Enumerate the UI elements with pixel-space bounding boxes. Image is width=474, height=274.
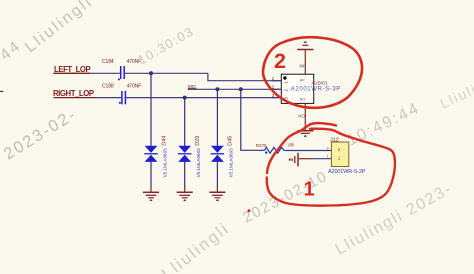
red dot [248,209,251,212]
wire box to lower ground [304,103,306,130]
port RIGHT_LOP [53,89,94,98]
connector J12 [327,137,366,175]
svg-text:A2001WR-S-2P: A2001WR-S-2P [328,169,366,175]
wire D29 to ground [184,162,186,187]
svg-text:D44: D44 [162,136,168,146]
wire step down [208,73,281,80]
svg-text:2: 2 [327,146,329,150]
pin stubs AUDIO1 [272,76,282,98]
svg-text:A2001WR-S-3P: A2001WR-S-3P [291,87,341,93]
svg-text:NO: NO [298,114,305,119]
capacitor C184 [102,59,141,81]
wire D44 drop [150,73,152,146]
wire resistor to J12 pin2 [286,150,332,152]
ground below AUDIO1 [297,131,313,137]
wire D29 drop [184,98,186,146]
resistor R275 [256,143,295,154]
wire C188 to pin3 [126,97,281,99]
svg-text:R275: R275 [256,143,267,148]
svg-text:V5.1MLA0603: V5.1MLA0603 [163,148,168,178]
junction MIC x=241 [239,87,243,91]
svg-text:0R: 0R [288,143,295,148]
svg-text:AUDIO1: AUDIO1 [312,80,329,85]
junction RIGHT_LOP x=184.7 [183,96,187,100]
annotation blob 1 [267,123,395,206]
wire RIGHT_LOP to C188 [94,97,121,99]
ground below D44 [143,186,159,201]
annotation circle 2 [263,37,362,108]
svg-text:D45: D45 [228,136,234,146]
svg-text:V5.1MLA0603: V5.1MLA0603 [229,148,234,178]
svg-text:1: 1 [304,179,315,201]
svg-text:C184: C184 [102,59,114,65]
svg-text:C188: C188 [102,84,114,90]
TVS diode D29 [178,136,201,177]
ground (flipped) above AUDIO1 [297,41,313,74]
TVS diode D44 [144,136,167,177]
svg-text:NO: NO [300,97,306,101]
connector AUDIO1 A2001WR-S-3P [281,74,341,103]
svg-text:2: 2 [274,49,286,73]
junction on LEFT_LOP wire [149,71,153,75]
wire D45 to ground [216,162,218,187]
svg-text:470NF: 470NF [127,59,142,65]
TVS diode D45 [211,136,234,177]
net label MIC [188,84,197,89]
wire LEFT_LOP to C184 [90,72,120,74]
port LEFT_LOP [53,65,90,74]
wire D45 drop [216,89,218,146]
svg-text:D29: D29 [195,136,201,146]
capacitor C188 [102,84,141,105]
wire MIC to pin2 [188,88,281,90]
wire C184 to step [125,72,208,74]
ground below D45 [209,186,225,201]
ground (rotated) at J12 pin1 [289,153,313,166]
svg-text:V5.1MLA0603: V5.1MLA0603 [196,148,201,178]
junction MIC x=217 [215,87,219,91]
svg-text:1: 1 [327,155,329,159]
wire stub at left edge [0,91,4,92]
wire D44 to ground [150,162,152,187]
wire ground to J12 pin1 [313,158,332,160]
svg-text:MP: MP [300,78,305,82]
svg-text:MP: MP [300,64,306,69]
svg-text:470NF: 470NF [127,84,142,90]
wire MIC drop to resistor [241,89,263,150]
ground below D29 [177,186,193,201]
svg-text:RIGHT_LOP: RIGHT_LOP [53,89,94,98]
svg-text:LEFT_LOP: LEFT_LOP [54,65,91,74]
